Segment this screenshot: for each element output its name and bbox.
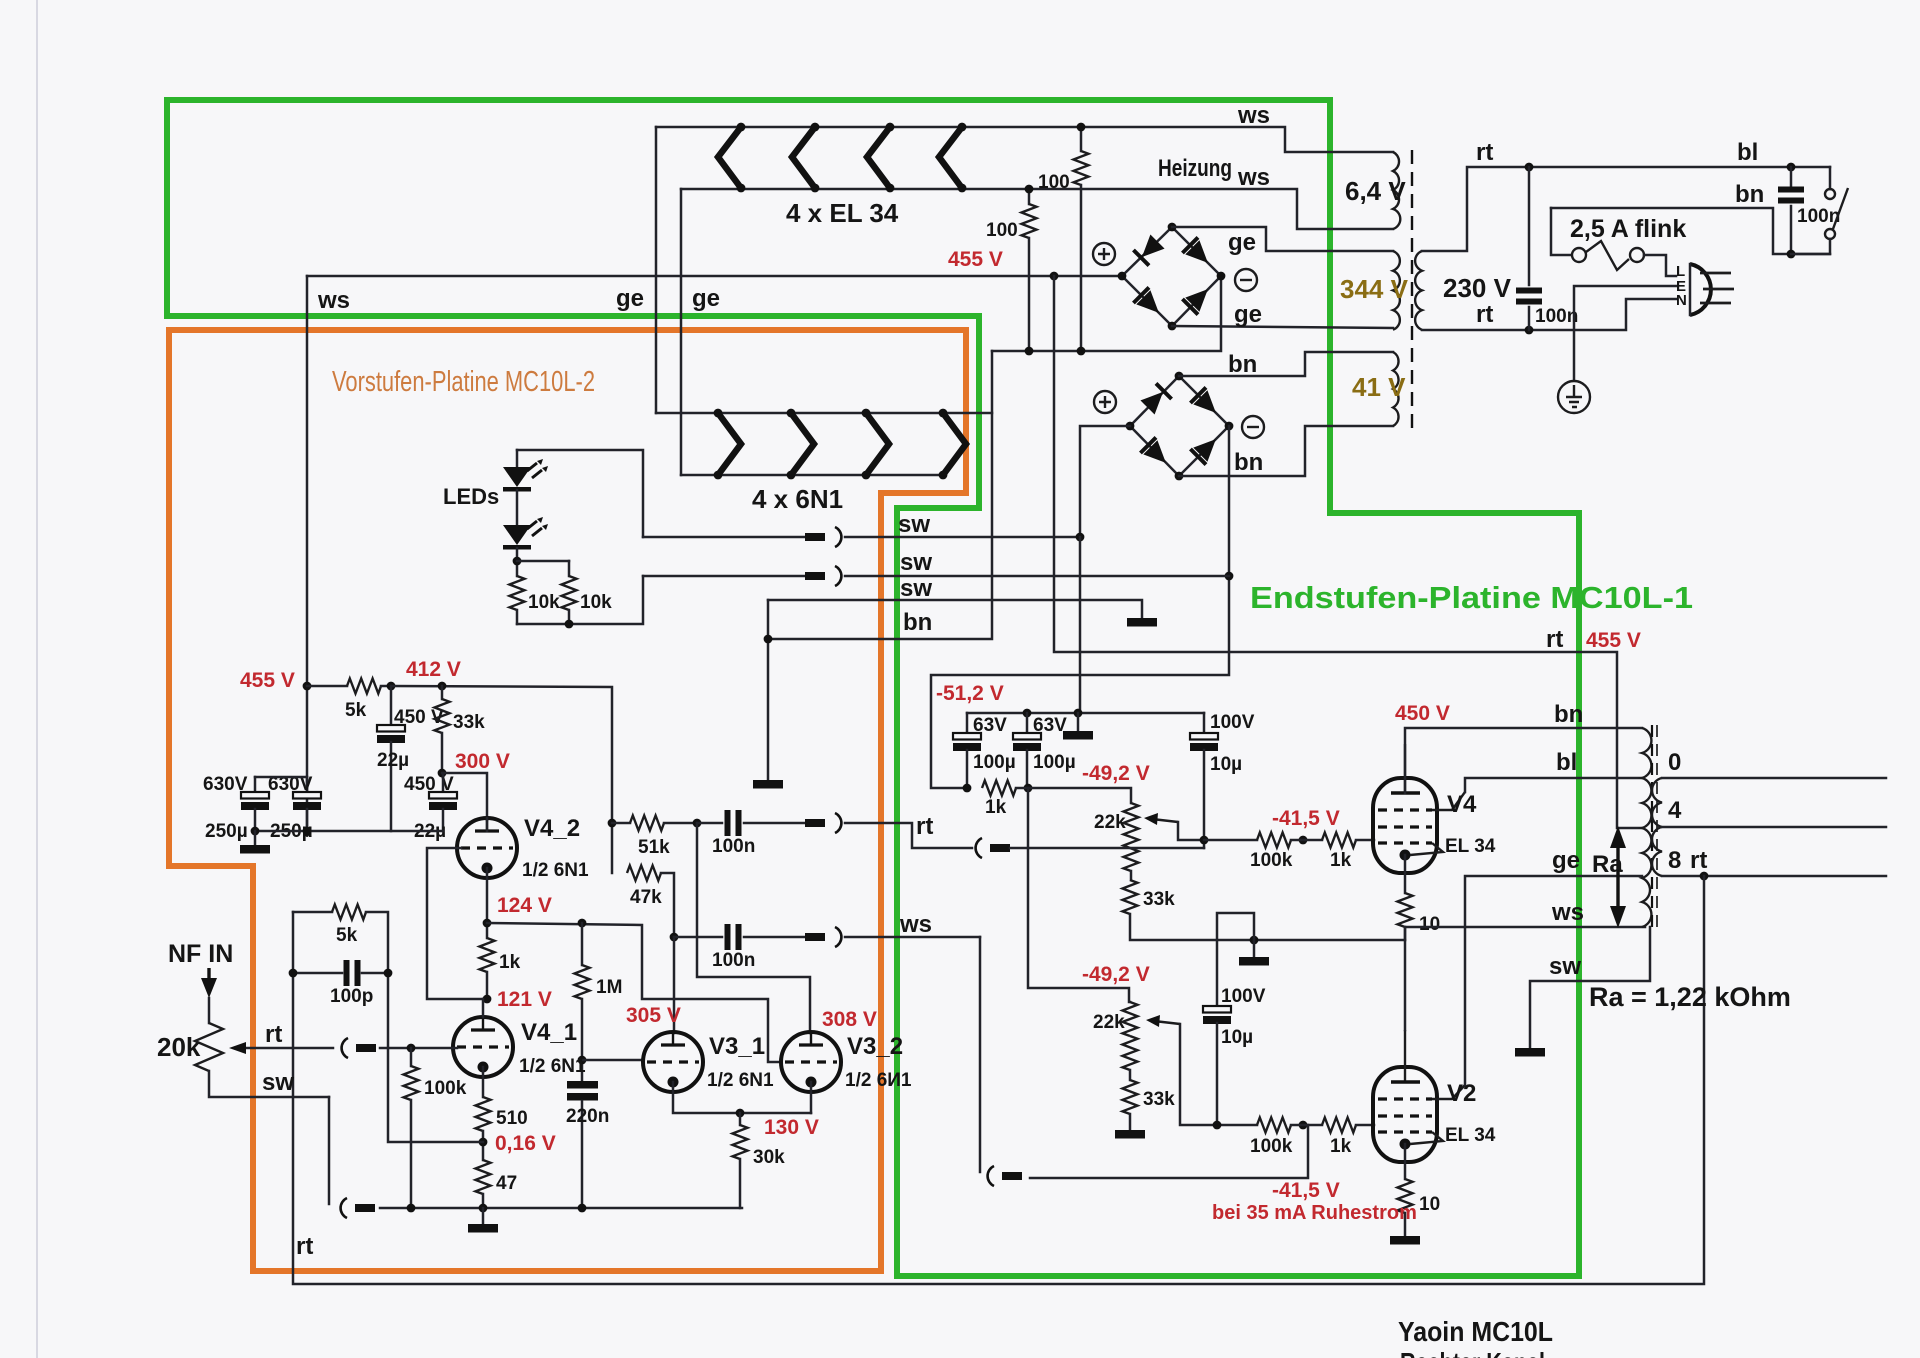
resistor 5k feedback xyxy=(293,905,388,974)
junction gnd 100k xyxy=(407,1204,416,1213)
svg-text:630V: 630V xyxy=(203,774,248,795)
svg-text:41 V: 41 V xyxy=(1352,372,1406,402)
wire V2 anode to ws xyxy=(1405,927,1645,1030)
wire 10u2 jog xyxy=(1217,913,1254,1005)
svg-text:4 x EL 34: 4 x EL 34 xyxy=(786,198,899,228)
svg-text:ws: ws xyxy=(1237,164,1270,191)
junction sw1 led supply xyxy=(1076,533,1085,542)
svg-text:sw: sw xyxy=(900,575,932,602)
wire B1 bottom to 344V winding xyxy=(1172,326,1393,328)
svg-text:bn: bn xyxy=(903,609,932,636)
svg-text:NF IN: NF IN xyxy=(168,940,233,968)
junction cath return gnd xyxy=(1250,936,1259,945)
wire bn run xyxy=(1551,208,1830,254)
junction 412 33k xyxy=(438,682,447,691)
svg-text:63V: 63V xyxy=(973,715,1007,736)
wire primary top to bl xyxy=(1422,167,1830,251)
svg-text:rt: rt xyxy=(296,1233,313,1260)
potentiometer 22k lower xyxy=(1093,1002,1180,1080)
svg-text:rt: rt xyxy=(1546,626,1563,653)
svg-text:rt: rt xyxy=(1476,139,1493,166)
wire 20k bottom sw xyxy=(209,1071,329,1097)
svg-text:bn: bn xyxy=(1234,449,1263,476)
svg-text:rt: rt xyxy=(1690,847,1707,874)
svg-text:N: N xyxy=(1676,292,1687,309)
wire rail1 left drop to 6N1 rail xyxy=(655,127,658,413)
svg-text:-41,5 V: -41,5 V xyxy=(1272,807,1340,830)
heater 6N1 chevron 4 xyxy=(939,409,966,480)
mains transformer secondary 6,4V xyxy=(1345,152,1406,229)
connector rt input xyxy=(342,1038,376,1058)
resistor 100k V4 xyxy=(1204,833,1293,872)
wire 630V caps top link xyxy=(255,776,307,779)
svg-text:sw: sw xyxy=(898,511,930,538)
svg-text:V3_2: V3_2 xyxy=(847,1033,903,1060)
wire 300V to V4_2 anode xyxy=(442,773,487,820)
capacitor 100u right 63V xyxy=(1013,713,1076,788)
junction rail2/R100 xyxy=(1025,185,1034,194)
svg-text:Ra: Ra xyxy=(1592,851,1623,878)
wire earth to plug E xyxy=(1574,286,1676,380)
junction caps bottom right xyxy=(303,827,312,836)
svg-text:250µ: 250µ xyxy=(205,821,248,842)
wire sec tap 8 xyxy=(1662,875,1886,878)
resistor 100k V2 xyxy=(1217,1118,1293,1158)
svg-text:33k: 33k xyxy=(453,712,485,733)
svg-text:100V: 100V xyxy=(1210,712,1255,733)
svg-text:sw: sw xyxy=(1549,953,1581,980)
ground bias rail xyxy=(1063,713,1093,740)
svg-text:100µ: 100µ xyxy=(973,752,1016,773)
svg-text:-49,2 V: -49,2 V xyxy=(1082,963,1150,986)
resistor 1M xyxy=(575,923,623,1080)
junction caps bottom left xyxy=(251,827,260,836)
svg-text:30k: 30k xyxy=(753,1147,785,1168)
junction 10u2 bottom xyxy=(1213,1121,1222,1130)
connector ws drive xyxy=(988,1166,1022,1186)
ground bn xyxy=(753,780,783,789)
earth symbol xyxy=(1558,381,1590,413)
junction 47k V3_1 anode xyxy=(670,933,679,942)
LED 1 xyxy=(503,450,548,492)
junction bl 100n xyxy=(1787,163,1796,172)
svg-text:300 V: 300 V xyxy=(455,750,510,773)
junction LED res top xyxy=(513,557,522,566)
wire V4 cathode xyxy=(1404,855,1407,893)
junction res bottom xyxy=(565,620,574,629)
svg-text:22µ: 22µ xyxy=(377,750,409,771)
junction 10u1 grid row xyxy=(1200,836,1209,845)
svg-text:8: 8 xyxy=(1668,847,1681,874)
mains transformer secondary 41V xyxy=(1352,352,1406,426)
heater 6N1 rail bottom xyxy=(681,474,943,477)
wire sw gnd of OT xyxy=(1530,927,1650,1048)
svg-text:5k: 5k xyxy=(345,700,367,721)
junction 124V xyxy=(483,919,492,928)
wire sec tap 4 xyxy=(1662,826,1886,829)
ground sw3 xyxy=(1127,618,1157,627)
svg-text:455 V: 455 V xyxy=(948,248,1003,271)
wire bias to pot1 xyxy=(1016,788,1131,803)
svg-text:33k: 33k xyxy=(1143,889,1175,910)
svg-text:1k: 1k xyxy=(1330,1136,1352,1157)
svg-text:100µ: 100µ xyxy=(1033,752,1076,773)
resistor 1k V2 xyxy=(1291,1118,1374,1158)
svg-text:ge: ge xyxy=(1228,229,1256,256)
heater EL34 chevron 3 xyxy=(867,123,894,193)
junction fb right xyxy=(384,969,393,978)
svg-text:100k: 100k xyxy=(1250,850,1293,871)
mains transformer secondary 344V xyxy=(1340,251,1409,330)
wire rt link xyxy=(845,823,972,848)
junction 100n bn xyxy=(1787,250,1796,259)
svg-text:-51,2 V: -51,2 V xyxy=(936,682,1004,705)
svg-text:10: 10 xyxy=(1419,1194,1440,1215)
wire LED bottom rail xyxy=(517,576,643,624)
junction cap2 top xyxy=(1023,709,1032,718)
LED 2 xyxy=(503,517,548,550)
junction cathodes 30k xyxy=(736,1109,745,1118)
heater 6N1 chevron 1 xyxy=(714,409,741,480)
wire B2 bottom to 41V winding xyxy=(1179,426,1393,476)
junction 455 5k xyxy=(303,682,312,691)
svg-text:1/2 6И1: 1/2 6И1 xyxy=(845,1070,912,1091)
wire 51k to cap xyxy=(697,822,722,825)
wire bn gnd vertical xyxy=(767,600,770,780)
wire bias to pot2 xyxy=(1028,788,1130,1002)
wire primary bottom to N xyxy=(1422,299,1676,330)
svg-text:ge: ge xyxy=(1552,847,1580,874)
heater 6N1 rail top xyxy=(656,412,992,415)
wire res top link xyxy=(517,560,569,563)
junction 100u2 bottom xyxy=(1024,784,1033,793)
potentiometer 20k wiper arrow xyxy=(229,1042,246,1054)
heater EL34 chevron 4 xyxy=(939,123,966,193)
Endstufen board outline (green) xyxy=(167,100,1579,1276)
wire V4_1 grid input xyxy=(380,1047,457,1050)
output transformer secondary xyxy=(1652,778,1662,876)
svg-text:510: 510 xyxy=(496,1108,528,1129)
connector rt in xyxy=(976,838,1010,858)
heater EL34 chevron 2 xyxy=(792,123,819,193)
svg-text:rt: rt xyxy=(916,813,933,840)
junction V3_1 grid xyxy=(578,1056,587,1065)
heater 6N1 chevron 3 xyxy=(862,409,889,480)
junction mains cap bottom xyxy=(1525,326,1534,335)
wire fb to cathode xyxy=(388,973,483,1142)
junction gnd 47 xyxy=(479,1204,488,1213)
junction V2 grid xyxy=(1299,1121,1308,1130)
resistor 1k bias xyxy=(982,781,1016,819)
Ra measuring arrow xyxy=(1592,826,1626,928)
ground cath return xyxy=(1239,940,1269,966)
svg-text:bn: bn xyxy=(1228,351,1257,378)
wire B1 top to 344V winding xyxy=(1172,227,1393,251)
paper edge line xyxy=(36,0,38,1358)
svg-text:230 V: 230 V xyxy=(1443,273,1512,303)
capacitor 100n rt xyxy=(712,810,805,857)
potentiometer 22k upper xyxy=(1094,803,1178,880)
svg-text:305 V: 305 V xyxy=(626,1004,681,1027)
svg-text:124 V: 124 V xyxy=(497,894,552,917)
wire V3_1 anode xyxy=(673,937,676,1033)
wire rt input left xyxy=(244,1047,333,1050)
potentiometer 20k xyxy=(157,998,223,1071)
capacitor 250u right 630V xyxy=(268,774,321,842)
junction 0,16V xyxy=(479,1138,488,1147)
svg-text:bn: bn xyxy=(1554,701,1583,728)
wire V4_2 grid ladder xyxy=(427,848,483,999)
svg-text:Vorstufen-Platine MC10L-2: Vorstufen-Platine MC10L-2 xyxy=(332,366,595,398)
svg-text:V4_1: V4_1 xyxy=(521,1019,577,1046)
junction 100u1 bottom xyxy=(963,784,972,793)
resistor 33k upper xyxy=(1123,880,1406,940)
svg-text:121 V: 121 V xyxy=(497,988,552,1011)
wire V3_1 grid xyxy=(582,1059,643,1062)
junction mains cap top xyxy=(1525,163,1534,172)
B2 minus symbol xyxy=(1242,416,1264,438)
svg-text:5k: 5k xyxy=(336,925,358,946)
junction gnd 220n xyxy=(578,1204,587,1213)
heater 6N1 chevron 2 xyxy=(787,409,814,480)
svg-text:100k: 100k xyxy=(424,1078,467,1099)
wire V3_2 cathode xyxy=(810,1082,813,1113)
ground preamp xyxy=(468,1208,498,1233)
junction 300V xyxy=(438,769,447,778)
junction 121V xyxy=(483,995,492,1004)
wire 455V rail left drop xyxy=(306,276,309,831)
wire sec tap 0 xyxy=(1662,777,1886,780)
resistor 30k xyxy=(733,1113,786,1208)
wire sw1 xyxy=(643,536,805,539)
svg-text:100V: 100V xyxy=(1221,986,1266,1007)
wire preamp gnd bus xyxy=(380,1207,742,1210)
svg-text:10µ: 10µ xyxy=(1210,754,1242,775)
svg-text:344 V: 344 V xyxy=(1340,274,1409,304)
connector gnd bus xyxy=(341,1198,375,1218)
resistor 33k lower xyxy=(1123,1080,1176,1130)
capacitor 250u left 630V xyxy=(203,774,269,842)
B1 plus symbol xyxy=(1093,243,1115,265)
capacitor 100p xyxy=(293,960,388,1007)
svg-text:22k: 22k xyxy=(1093,1012,1125,1033)
svg-text:bl: bl xyxy=(1737,139,1758,166)
tube V3_2 xyxy=(781,1032,841,1092)
svg-text:100k: 100k xyxy=(1250,1136,1293,1157)
svg-text:LEDs: LEDs xyxy=(443,484,499,509)
svg-text:10µ: 10µ xyxy=(1221,1027,1253,1048)
capacitor 10u V4 100V xyxy=(1190,712,1255,848)
junction grid 100k xyxy=(407,1044,416,1053)
wire V4_1 cathode xyxy=(482,1067,485,1097)
B2 plus symbol xyxy=(1094,391,1116,413)
resistor 10k right xyxy=(562,561,613,624)
junction rail1/R100 xyxy=(1077,123,1086,132)
wire LED top rail xyxy=(517,450,643,537)
capacitor 10u V2 100V xyxy=(1203,986,1266,1125)
wire led supply to gnd xyxy=(1079,537,1082,713)
svg-text:100p: 100p xyxy=(330,986,373,1007)
svg-text:10k: 10k xyxy=(528,592,560,613)
resistor 1k V4_2 cathode xyxy=(480,938,521,999)
junction 455V rt feed xyxy=(1050,272,1059,281)
resistor 47k xyxy=(627,866,674,938)
output transformer core xyxy=(1651,725,1653,930)
wire heater rail 2 xyxy=(681,189,1393,229)
wire sw2 xyxy=(643,575,805,578)
svg-text:rt: rt xyxy=(1476,301,1493,328)
svg-text:47k: 47k xyxy=(630,887,662,908)
svg-text:4 x 6N1: 4 x 6N1 xyxy=(752,484,843,514)
capacitor 100n line filter xyxy=(1778,167,1840,254)
resistor 510 xyxy=(476,1097,528,1160)
wire feedback return xyxy=(293,876,1704,1284)
resistor 100 upper xyxy=(1038,127,1089,351)
junction gnd stub xyxy=(1074,709,1083,718)
svg-text:10: 10 xyxy=(1419,914,1440,935)
svg-text:20k: 20k xyxy=(157,1032,201,1062)
wire ws drive V2 grid xyxy=(1030,1125,1308,1178)
mains plug xyxy=(1676,263,1734,315)
wire V2 screen ge xyxy=(1465,876,1642,1085)
svg-text:Ra = 1,22 kOhm: Ra = 1,22 kOhm xyxy=(1589,982,1791,1012)
svg-text:Rechter Kanal: Rechter Kanal xyxy=(1400,1347,1545,1358)
svg-text:rt: rt xyxy=(265,1021,282,1048)
bridge rectifier B1 xyxy=(1118,223,1226,331)
svg-text:130 V: 130 V xyxy=(764,1116,819,1139)
resistor 5k B+ xyxy=(307,679,391,722)
wire ws link xyxy=(845,936,980,939)
svg-text:ge: ge xyxy=(692,285,720,312)
NF IN arrow xyxy=(201,968,217,998)
svg-text:EL 34: EL 34 xyxy=(1445,836,1496,857)
junction V4 grid xyxy=(1299,836,1308,845)
svg-text:308 V: 308 V xyxy=(822,1008,877,1031)
wire B2 minus bias drop xyxy=(931,426,1229,788)
B1 minus symbol xyxy=(1235,269,1257,291)
output transformer primary xyxy=(1642,728,1651,927)
wire rt 455V drop to output stage xyxy=(1054,276,1642,828)
wire heater bias drop xyxy=(768,351,992,639)
svg-text:22k: 22k xyxy=(1094,812,1126,833)
resistor 47 xyxy=(476,1160,518,1208)
svg-text:1M: 1M xyxy=(596,977,622,998)
ground 33k lower xyxy=(1115,1130,1145,1139)
junction bn xyxy=(764,635,773,644)
junction 412 51k xyxy=(608,819,617,828)
svg-text:bl: bl xyxy=(1556,749,1577,776)
ground caps xyxy=(240,831,270,854)
svg-text:6,4 V: 6,4 V xyxy=(1345,176,1406,206)
junction 1M top xyxy=(578,919,587,928)
svg-text:V4: V4 xyxy=(1447,791,1477,818)
svg-text:1/2 6N1: 1/2 6N1 xyxy=(522,860,589,881)
wire B1 minus bus xyxy=(992,276,1221,351)
tube V3_1 xyxy=(643,1032,703,1092)
junction 5k 22u xyxy=(387,682,396,691)
svg-text:1k: 1k xyxy=(985,797,1007,818)
heater EL34 chevron 1 xyxy=(718,123,745,193)
wire heater rail 1 top xyxy=(656,127,1393,152)
wire 412V node xyxy=(391,686,612,873)
wire sw3 xyxy=(768,600,1142,618)
svg-text:sw: sw xyxy=(900,549,932,576)
junction R100b minus bus xyxy=(1025,347,1034,356)
svg-text:100: 100 xyxy=(1038,172,1070,193)
svg-text:Endstufen-Platine MC10L-1: Endstufen-Platine MC10L-1 xyxy=(1250,580,1693,615)
mains switch xyxy=(1791,188,1848,254)
wire pot1 wiper xyxy=(1178,822,1204,840)
wire 63V gnd rail xyxy=(967,712,1204,715)
svg-text:455 V: 455 V xyxy=(1586,629,1641,652)
wire V3_1 cathode xyxy=(673,1082,811,1113)
wire 124V to V3_2 grid xyxy=(487,923,781,1062)
svg-text:-41,5 V: -41,5 V xyxy=(1272,1179,1340,1202)
svg-text:1k: 1k xyxy=(1330,850,1352,871)
svg-text:sw: sw xyxy=(262,1069,294,1096)
svg-text:4: 4 xyxy=(1668,797,1682,824)
resistor 1k V4 xyxy=(1291,833,1374,872)
wire ws vert xyxy=(979,937,982,1172)
svg-text:1k: 1k xyxy=(499,952,521,973)
capacitor 22u lower xyxy=(414,773,457,842)
wire sw2 cont xyxy=(845,575,1229,578)
resistor 100 lower xyxy=(986,189,1037,351)
junction R100a minus bus xyxy=(1077,347,1086,356)
connector rt out xyxy=(805,813,841,833)
svg-text:450 V: 450 V xyxy=(1395,702,1450,725)
wire V4 anode to bn xyxy=(1405,728,1642,793)
svg-text:ge: ge xyxy=(1234,301,1262,328)
svg-text:63V: 63V xyxy=(1033,715,1067,736)
svg-text:1/2 6N1: 1/2 6N1 xyxy=(707,1070,774,1091)
wire caps bottom bus xyxy=(255,830,443,833)
connector sw2 xyxy=(805,566,841,586)
svg-text:V4_2: V4_2 xyxy=(524,815,580,842)
capacitor 100n mains xyxy=(1516,167,1578,330)
wire V4_1 anode to 121V xyxy=(482,999,485,1017)
svg-text:100: 100 xyxy=(986,220,1018,241)
wire sw1 cont xyxy=(845,536,1080,539)
svg-text:-49,2 V: -49,2 V xyxy=(1082,762,1150,785)
mains transformer core xyxy=(1411,150,1413,432)
svg-text:ws: ws xyxy=(899,911,932,938)
junction fb left xyxy=(289,969,298,978)
svg-text:bei 35 mA Ruhestrom: bei 35 mA Ruhestrom xyxy=(1212,1202,1417,1224)
svg-text:Yaoin MC10L: Yaoin MC10L xyxy=(1398,1316,1553,1347)
svg-text:455 V: 455 V xyxy=(240,669,295,692)
wire pot2 wiper xyxy=(1180,1024,1217,1125)
svg-text:2,5 A flink: 2,5 A flink xyxy=(1570,215,1686,243)
svg-text:0: 0 xyxy=(1668,749,1681,776)
junction B2minus sw2 xyxy=(1225,572,1234,581)
wire bl to switch xyxy=(1829,167,1832,189)
svg-text:Heizung: Heizung xyxy=(1158,155,1232,182)
junction tap8 fb xyxy=(1700,872,1709,881)
svg-text:100n: 100n xyxy=(712,950,755,971)
svg-text:33k: 33k xyxy=(1143,1089,1175,1110)
wire 455V B+ rail xyxy=(307,275,1122,278)
capacitor 100n ws xyxy=(674,924,805,971)
resistor 33k screen xyxy=(435,686,486,773)
wire V4 screen bl xyxy=(1465,778,1642,792)
wire LED1 to LED2 xyxy=(516,490,519,525)
Vorstufen board outline (orange) xyxy=(169,330,966,1271)
tube V4_1 xyxy=(453,1017,513,1077)
svg-text:EL 34: EL 34 xyxy=(1445,1125,1496,1146)
junction 51k out xyxy=(693,819,702,828)
tube V4 EL34 xyxy=(1373,744,1465,873)
